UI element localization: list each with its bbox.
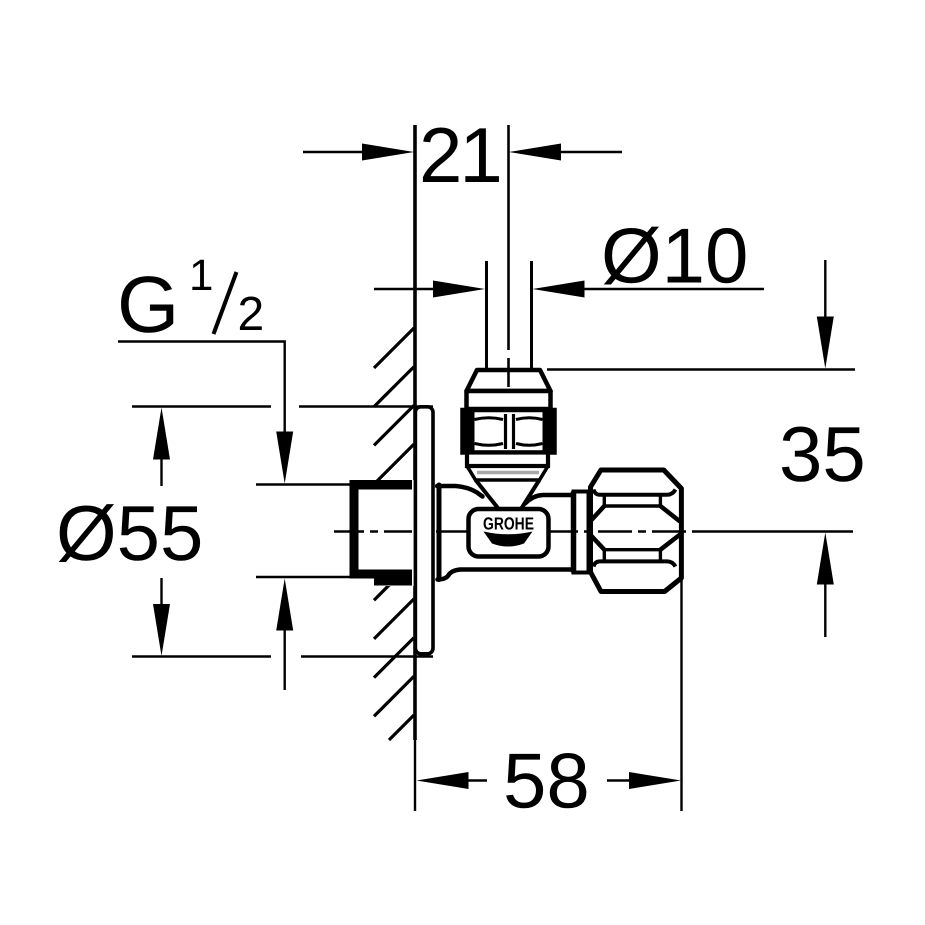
top fitting: hex nut	[463, 410, 555, 453]
valve body outline	[437, 481, 574, 580]
svg-text:21: 21	[419, 111, 500, 199]
dimension 35 top extension line	[547, 368, 855, 370]
wall line	[413, 125, 417, 740]
svg-text:G: G	[117, 260, 179, 349]
nipple thread dimension extension lines	[256, 483, 352, 485]
GROHE logo plate	[469, 509, 549, 557]
top fitting: upper band	[467, 391, 551, 409]
dimension O55 extension lines	[132, 405, 271, 407]
body bottom edge + step	[438, 570, 575, 580]
top fitting: lower band	[467, 453, 548, 467]
svg-text:1: 1	[189, 251, 213, 300]
funnel left slant	[476, 481, 498, 508]
top fitting: neck	[467, 466, 548, 480]
funnel right slant	[522, 481, 539, 508]
35 down	[817, 317, 834, 369]
svg-text:2: 2	[238, 288, 265, 341]
body top-left edge + fillet	[437, 486, 483, 497]
body left edge	[437, 485, 442, 580]
G12 down	[276, 432, 293, 484]
arrowheads	[153, 144, 834, 790]
body top-right edge + fillet	[525, 495, 574, 504]
outlet flange	[574, 492, 589, 573]
35 up	[817, 533, 834, 585]
dimension 58 line tails	[468, 779, 487, 781]
dimension O10 line tails	[374, 288, 437, 290]
svg-text:35: 35	[779, 410, 866, 498]
valve body	[437, 484, 576, 581]
21 left	[362, 144, 414, 161]
O55 down	[153, 604, 170, 656]
neck gray line	[477, 471, 539, 474]
vertical pipe center line	[507, 125, 510, 350]
O55 up	[153, 408, 170, 460]
dimension 58 right extension line	[680, 580, 682, 811]
dimension O55 arrow shafts	[160, 458, 162, 486]
dimension 35 arrow shafts	[824, 260, 826, 317]
G1/2 leader line	[118, 342, 285, 433]
58 left	[417, 772, 469, 789]
svg-text:Ø55: Ø55	[56, 489, 203, 577]
nipple up	[276, 579, 293, 631]
O10 left	[433, 281, 485, 298]
inlet nipple (G1/2 thread through wall)	[350, 480, 415, 586]
valve body funnel interior	[476, 480, 540, 508]
svg-text:GROHE: GROHE	[483, 514, 534, 534]
horizontal center line (dash-dot)	[334, 530, 412, 533]
nipple thread dimension lower shaft	[284, 629, 286, 690]
O10 right	[533, 281, 585, 298]
dimension 21 line tails	[303, 151, 364, 153]
escutcheon plate	[415, 407, 433, 654]
svg-text:Ø10: Ø10	[601, 212, 748, 300]
21 right	[509, 144, 561, 161]
wall hatching	[374, 328, 414, 740]
outlet pipe (O10)	[485, 261, 488, 370]
58 right	[629, 772, 681, 789]
top fitting: upper trapezoid	[467, 370, 551, 409]
svg-text:58: 58	[503, 737, 590, 825]
compression nut (right outlet)	[591, 470, 682, 592]
